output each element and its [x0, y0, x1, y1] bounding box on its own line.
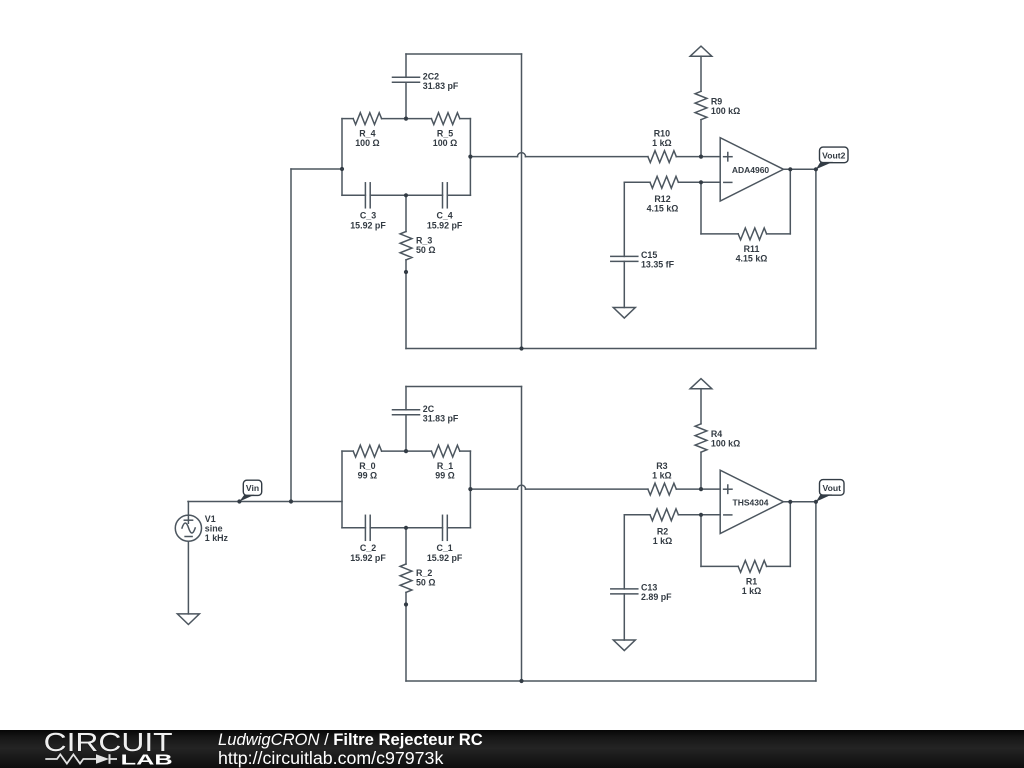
svg-text:15.92 pF: 15.92 pF [427, 553, 463, 563]
svg-text:100 kΩ: 100 kΩ [711, 439, 740, 449]
svg-text:V1: V1 [205, 514, 216, 524]
svg-text:2.89 pF: 2.89 pF [641, 592, 672, 602]
svg-text:C15: C15 [641, 250, 657, 260]
svg-text:R_5: R_5 [437, 128, 453, 138]
svg-text:50 Ω: 50 Ω [416, 245, 435, 255]
svg-text:R11: R11 [744, 244, 760, 254]
svg-text:1 kΩ: 1 kΩ [653, 536, 672, 546]
svg-text:4.15 kΩ: 4.15 kΩ [736, 253, 768, 263]
svg-text:R10: R10 [654, 128, 670, 138]
svg-text:2C2: 2C2 [423, 71, 439, 81]
svg-text:C_4: C_4 [436, 211, 452, 221]
svg-text:13.35 fF: 13.35 fF [641, 259, 675, 269]
svg-text:Vin: Vin [246, 483, 259, 493]
svg-text:THS4304: THS4304 [733, 497, 769, 507]
svg-text:15.92 pF: 15.92 pF [350, 220, 386, 230]
svg-text:R_1: R_1 [437, 461, 453, 471]
svg-text:50 Ω: 50 Ω [416, 578, 435, 588]
svg-text:R_3: R_3 [416, 236, 432, 246]
svg-text:1 kHz: 1 kHz [205, 533, 229, 543]
svg-text:1 kΩ: 1 kΩ [742, 586, 761, 596]
svg-text:R12: R12 [654, 194, 670, 204]
svg-text:15.92 pF: 15.92 pF [427, 220, 463, 230]
svg-text:LAB: LAB [121, 753, 174, 768]
svg-text:100 Ω: 100 Ω [355, 138, 379, 148]
svg-text:99 Ω: 99 Ω [435, 471, 454, 481]
svg-text:R1: R1 [746, 576, 757, 586]
svg-text:1 kΩ: 1 kΩ [652, 471, 671, 481]
svg-text:C_2: C_2 [360, 543, 376, 553]
svg-text:31.83 pF: 31.83 pF [423, 81, 459, 91]
svg-text:1 kΩ: 1 kΩ [652, 138, 671, 148]
svg-text:4.15 kΩ: 4.15 kΩ [647, 203, 679, 213]
svg-text:2C: 2C [423, 404, 435, 414]
svg-text:ADA4960: ADA4960 [732, 165, 770, 175]
svg-text:Vout2: Vout2 [822, 151, 845, 161]
svg-text:100 Ω: 100 Ω [433, 138, 457, 148]
svg-text:15.92 pF: 15.92 pF [350, 553, 386, 563]
svg-text:R2: R2 [657, 526, 668, 536]
svg-text:100 kΩ: 100 kΩ [711, 106, 740, 116]
svg-text:R4: R4 [711, 429, 722, 439]
svg-text:C_3: C_3 [360, 211, 376, 221]
svg-text:sine: sine [205, 524, 223, 534]
svg-text:31.83 pF: 31.83 pF [423, 413, 459, 423]
svg-text:C_1: C_1 [436, 543, 452, 553]
svg-text:C13: C13 [641, 582, 657, 592]
svg-text:R_0: R_0 [359, 461, 375, 471]
svg-text:R3: R3 [656, 461, 667, 471]
svg-text:Vout: Vout [823, 483, 842, 493]
svg-text:99 Ω: 99 Ω [358, 471, 377, 481]
svg-text:R_4: R_4 [359, 128, 375, 138]
svg-text:R_2: R_2 [416, 568, 432, 578]
svg-text:R9: R9 [711, 97, 722, 107]
